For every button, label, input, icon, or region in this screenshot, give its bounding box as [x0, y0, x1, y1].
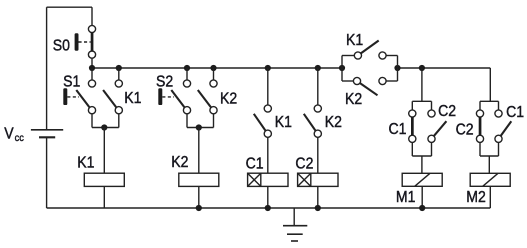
wire K1K2 block right bar [397, 56, 399, 82]
wire K2 bottom branch left [342, 80, 353, 82]
pushbutton S1 (normally open) [63, 80, 95, 114]
wire K1 contact branch lower [118, 114, 120, 128]
svg-text:K2: K2 [171, 153, 188, 171]
junction S2/bus [184, 65, 190, 71]
junction K2 middle branch/bus [315, 65, 321, 71]
wire to motor M2 [488, 156, 490, 173]
relay contact K2 (parallel with S2) [198, 80, 217, 114]
wire M2 to bottom rail [489, 186, 491, 208]
svg-text:K2: K2 [345, 90, 362, 108]
relay contact K2 (drives C2) [304, 105, 322, 137]
svg-text:C1: C1 [506, 103, 524, 121]
wire K1 contact to coil C1 [267, 137, 269, 173]
wire M2 branch drop [489, 68, 491, 101]
wire S2 branch lower [186, 114, 188, 128]
contactor coil C1 [248, 173, 288, 186]
svg-text:K1: K1 [77, 154, 94, 172]
svg-text:K1: K1 [346, 31, 363, 49]
junction K1 middle branch/bus [265, 65, 271, 71]
wire C2 contact lower (M2 branch) [479, 142, 481, 156]
pushbutton S2 (normally open) [158, 80, 190, 114]
wire M1 rejoin bar [412, 155, 431, 157]
contactor contact C2 (closed, feeds M2) [476, 110, 483, 142]
wire K2 contact to coil C2 [317, 137, 319, 173]
wire coil C1 to bottom rail [267, 186, 269, 208]
wire S1 branch lower [91, 114, 93, 128]
battery Vcc [31, 130, 63, 138]
svg-text:cc: cc [15, 133, 24, 145]
junction M1 branch/bus [419, 65, 425, 71]
wire coil K2 to bottom rail [198, 186, 200, 208]
svg-text:C1: C1 [246, 155, 264, 173]
svg-text:M1: M1 [396, 188, 416, 206]
junction S0/bus [89, 65, 95, 71]
wire K1 top branch left [342, 55, 354, 57]
wire left rail (Vcc positive rail) [46, 7, 48, 129]
wire S1/K1 rejoin bar [92, 127, 119, 129]
wire C1 contact lower [411, 142, 413, 156]
svg-text:K2: K2 [220, 89, 237, 107]
wire battery negative to bottom rail [46, 137, 48, 208]
svg-text:C2: C2 [456, 121, 474, 139]
contactor contact C1 (closed, feeds M1) [409, 110, 416, 142]
junction K2 contact/bus [210, 65, 216, 71]
wire coil K1 to bottom rail [103, 186, 105, 208]
wire main bus (left part) [92, 67, 342, 69]
junction coil K2/bottom rail [196, 205, 202, 211]
wire C1 contact upper (M2 branch) [498, 101, 500, 110]
wire K2 contact branch upper [213, 68, 215, 80]
junction S2K2/coil K2 [196, 124, 202, 130]
junction S1K1/coil K1 [101, 124, 107, 130]
svg-text:K2: K2 [325, 113, 342, 131]
svg-text:C1: C1 [389, 120, 407, 138]
wire K2 middle branch upper [317, 68, 319, 105]
junction bus/K1K2 block left [339, 65, 345, 71]
ground [283, 208, 307, 241]
junction coil C1/bottom rail [265, 205, 271, 211]
wire C1 contact upper [411, 101, 413, 110]
junction M1/bottom rail [419, 205, 425, 211]
wire K1 top branch right [386, 55, 397, 57]
wire to coil K2 [198, 128, 200, 174]
wire K1 middle branch upper [267, 68, 269, 105]
wire K2 contact branch lower [213, 114, 215, 128]
contactor contact C2 (open, M1 branch) [428, 110, 447, 142]
wire S0 drop from top rail [91, 7, 93, 25]
wire M2 rejoin bar [480, 155, 499, 157]
svg-text:V: V [4, 125, 13, 143]
relay coil K1 [84, 173, 124, 186]
wire C1 contact lower (M2 branch) [498, 142, 500, 156]
svg-text:S0: S0 [53, 37, 70, 55]
wire bottom rail (ground net) [47, 207, 491, 209]
wire C2 contact upper (M2 branch) [479, 101, 481, 110]
wire coil C2 to bottom rail [317, 186, 319, 208]
relay contact K2 (interlock, bottom) [353, 77, 386, 95]
wire top rail [47, 6, 92, 8]
svg-text:K1: K1 [275, 113, 292, 131]
svg-text:C2: C2 [295, 155, 313, 173]
svg-text:S1: S1 [63, 73, 80, 91]
pushbutton S0 (normally closed) [75, 25, 96, 58]
relay contact K1 (drives C1) [254, 105, 272, 137]
wire M1 split bar [412, 100, 431, 102]
motor M2 [470, 173, 510, 186]
wire C2 contact lower [431, 142, 433, 156]
wire M2 split bar [480, 100, 499, 102]
wire S2 branch upper [186, 68, 188, 80]
wire main bus (right part) [398, 67, 491, 69]
contactor coil C2 [298, 173, 338, 186]
junction K1 contact/bus [116, 65, 122, 71]
svg-text:K1: K1 [124, 89, 141, 107]
wire C2 contact upper [431, 101, 433, 110]
label Vcc [4, 125, 24, 144]
wire S0 to bus [91, 58, 93, 68]
wire K1 contact branch upper [118, 68, 120, 80]
junction coil C2/bottom rail [315, 205, 321, 211]
svg-text:S2: S2 [156, 73, 173, 91]
relay coil K2 [179, 173, 219, 186]
wire to coil K1 [103, 128, 105, 174]
wire M1 branch drop [421, 68, 423, 101]
wire S2/K2 rejoin bar [187, 127, 214, 129]
wire S1 branch upper [91, 68, 93, 80]
motor M1 [402, 173, 442, 186]
wire M1 to bottom rail [421, 186, 423, 208]
wire to motor M1 [421, 156, 423, 173]
junction bus/K1K2 block right [394, 65, 400, 71]
contactor contact C1 (open, M2 branch) [495, 110, 511, 142]
wire K1K2 block left bar [341, 56, 343, 82]
relay contact K1 (parallel with S1) [103, 80, 122, 114]
svg-text:C2: C2 [438, 102, 456, 120]
svg-text:M2: M2 [466, 188, 486, 206]
relay contact K1 (interlock, top) [354, 41, 386, 60]
wire K2 bottom branch right [386, 80, 397, 82]
